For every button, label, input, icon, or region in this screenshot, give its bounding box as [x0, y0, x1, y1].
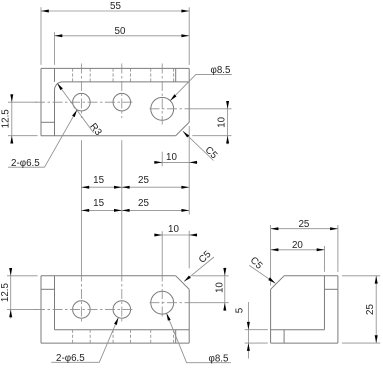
hidden line hole1 right: [89, 68, 91, 82]
hidden line hole1 left front view: [72, 330, 74, 343]
dim 25 side arrow left: [271, 227, 279, 230]
svg-text:φ8.5: φ8.5: [211, 65, 232, 76]
hole1 top view circle: [73, 93, 91, 111]
centerline horizontal small holes top view: [35, 101, 135, 103]
hidden line hole1 right front view: [89, 330, 91, 343]
dim 12.5 upper extension line top: [8, 101, 38, 103]
leader 2-phi6.5 upper arrow: [72, 110, 77, 117]
dim 25 right line: [375, 276, 377, 343]
svg-text:C5: C5: [203, 145, 220, 162]
svg-text:10: 10: [168, 224, 179, 235]
dim 5 arrow top: [247, 322, 250, 330]
side view wall face edge: [323, 276, 325, 330]
side view chamfer C5 edge: [271, 276, 285, 290]
hole3 top view circle (large): [151, 97, 174, 120]
front view outline: bottom edge: [41, 342, 189, 344]
hole2 front view circle: [113, 301, 131, 319]
centerline vertical hole3 front view: [161, 272, 163, 319]
dim 10 upper-right arrow top: [226, 101, 229, 109]
dim 10 lower-right extension top: [192, 275, 228, 277]
side view outline: right edge: [337, 276, 339, 343]
dim 25 right arrow top: [375, 276, 378, 284]
dim 12.5 upper line: [11, 94, 13, 144]
hidden line hole2 right front view: [130, 330, 132, 343]
dim 10 lower-right line: [224, 268, 226, 312]
hidden line hole3 left: [150, 68, 152, 82]
svg-text:5: 5: [235, 307, 246, 313]
hidden line hole2 right: [130, 68, 132, 82]
dim 10 upper-right arrow bottom: [226, 136, 229, 144]
extension line hole2 between views: [121, 140, 123, 271]
dim 25 side extension right: [337, 225, 339, 272]
dim 50 arrow left: [55, 34, 63, 37]
leader phi8.5 lower line: [167, 313, 231, 362]
svg-text:25: 25: [138, 175, 149, 186]
dim 20 arrow left: [271, 248, 279, 251]
leader 2-phi6.5 lower line: [51, 318, 118, 363]
dim row2 line: [81, 209, 189, 211]
top view outline: front edge: [41, 135, 176, 137]
top view chamfer C5 corner edge: [176, 122, 190, 136]
hidden line hole3 right: [173, 68, 175, 82]
front view outline: left edge: [40, 276, 42, 343]
leader phi8.5 lower arrow: [167, 313, 171, 320]
svg-text:25: 25: [365, 304, 376, 315]
dim 50 arrow right: [181, 34, 189, 37]
hidden line hole3 left front view: [150, 330, 152, 343]
svg-text:10: 10: [216, 116, 227, 127]
dim 20 arrow right: [317, 248, 325, 251]
dim 10 lower-right arrow top: [223, 268, 226, 276]
dim 12.5 upper extension line bottom: [8, 135, 38, 137]
dim 10 lower-right extension bottom: [192, 302, 228, 304]
leader phi8.5 upper arrow: [170, 94, 176, 100]
svg-text:C5: C5: [197, 249, 214, 266]
dim 50 line: [55, 35, 190, 37]
top view left block right-face edge (band segment): [54, 68, 56, 82]
dim 25 right extension bottom: [342, 342, 380, 344]
dim 55 arrow right: [181, 10, 189, 13]
dim 10 lower-horiz extension right: [188, 231, 190, 268]
leader 2-phi6.5 upper line: [8, 110, 77, 167]
svg-text:25: 25: [138, 198, 149, 209]
leader C5 lower line: [184, 257, 214, 281]
dim 5 extension top: [245, 329, 268, 331]
hole1 front view circle: [73, 301, 91, 319]
svg-text:2-φ6.5: 2-φ6.5: [11, 158, 40, 169]
dim 25 right arrow bottom: [375, 335, 378, 343]
leader R3 arrow: [57, 83, 63, 90]
side view chamfer edge line top-right cell: [324, 288, 337, 290]
dim 5 line: [247, 302, 249, 359]
side view outline: top edge: [284, 275, 338, 277]
top view chamfer edge line in band: [175, 68, 177, 82]
hidden line hole1 left: [72, 68, 74, 82]
dim 12.5 lower line: [10, 268, 12, 319]
dim 10 upper-right extension bottom: [192, 135, 231, 137]
top view left block front edge: [41, 121, 55, 123]
dim row1 arrow right: [181, 186, 189, 189]
leader phi8.5 upper line: [170, 74, 232, 100]
dim row1 arrow left: [81, 186, 89, 189]
svg-text:C5: C5: [248, 255, 265, 272]
centerline horizontal small holes front view: [35, 308, 135, 310]
fillet R3 arc: [55, 82, 63, 90]
dim 50 extension line left: [54, 32, 56, 65]
leader R3 line: [57, 83, 93, 133]
dim 10 upper-right extension top: [192, 108, 231, 110]
centerline horizontal big hole front view: [150, 302, 193, 304]
dim 10 lower-horiz arrow right: [189, 234, 197, 237]
hole3 front view circle (large): [151, 291, 174, 314]
side view outline: bottom edge: [271, 342, 338, 344]
extension line right edge below upper view: [188, 126, 190, 215]
dim 10 upper-horiz arrow right: [189, 161, 197, 164]
svg-text:15: 15: [93, 175, 104, 186]
svg-text:12.5: 12.5: [0, 109, 11, 129]
dim 25 right extension top: [342, 275, 380, 277]
hidden line hole2 left: [112, 68, 114, 82]
top view outline: left edge: [40, 68, 42, 135]
dim 25 side extension left: [270, 225, 272, 286]
dim 12.5 upper arrow bottom: [10, 136, 13, 144]
dim 12.5 lower arrow bottom: [9, 309, 12, 317]
dim row2 arrow left: [81, 209, 89, 212]
dim 10 upper-horiz extension left: [161, 152, 163, 167]
dim 10 upper-right line: [227, 101, 229, 144]
svg-text:φ8.5: φ8.5: [209, 353, 230, 364]
side view outline: left edge: [270, 289, 272, 343]
dim 12.5 lower arrow top: [9, 268, 12, 276]
front view left block top edge: [41, 288, 55, 290]
dim row1 line: [81, 186, 189, 188]
dim 10 lower-horiz extension left: [161, 231, 163, 271]
dim 10 lower-right arrow bottom: [223, 303, 226, 311]
front view outline: right edge: [188, 289, 190, 343]
dim 10 lower-horiz line: [154, 234, 197, 236]
front view outline: top edge: [41, 275, 176, 277]
top view outline: right edge: [188, 68, 190, 122]
svg-text:50: 50: [115, 26, 126, 37]
dim row1 arrows middle: [114, 186, 122, 189]
centerline vertical hole2 front view: [121, 272, 123, 322]
dim 55 arrow left: [41, 10, 49, 13]
dim row2 arrows middle: [114, 209, 122, 212]
dim 12.5 upper arrow top: [10, 94, 13, 102]
dim 55 extension line left: [40, 7, 42, 65]
dim 12.5 lower extension bottom: [7, 308, 38, 310]
dim 55 line: [41, 10, 189, 12]
dim 10 lower-horiz arrow left: [154, 234, 162, 237]
dim 20 line: [271, 249, 325, 251]
dim 55/50 extension line right: [188, 7, 190, 65]
svg-text:25: 25: [298, 219, 309, 230]
dim 5 extension bottom: [245, 342, 268, 344]
svg-text:20: 20: [292, 240, 303, 251]
centerline horizontal big hole top view: [150, 108, 193, 110]
centerline vertical hole1 top view: [80, 64, 82, 119]
svg-text:10: 10: [215, 282, 226, 293]
dim 25 side arrow right: [330, 227, 338, 230]
leader C5 lower arrow: [184, 276, 191, 282]
leader C5 side line: [249, 265, 275, 283]
centerline vertical hole1 front view: [80, 272, 82, 322]
front view chamfer C5 corner edge: [176, 276, 190, 290]
svg-text:10: 10: [166, 152, 177, 163]
hidden line hole2 left front view: [112, 330, 114, 343]
centerline vertical hole2 top view: [121, 64, 123, 119]
leader 2-phi6.5 lower arrow: [114, 318, 118, 325]
hidden line hole3 right front view: [173, 330, 175, 343]
hole2 top view circle: [113, 93, 131, 111]
svg-text:2-φ6.5: 2-φ6.5: [56, 353, 85, 364]
dim 12.5 lower extension top: [7, 275, 38, 277]
front view base top edge: [55, 329, 190, 331]
centerline vertical hole3 top view: [161, 64, 163, 125]
dim 25 side line: [271, 228, 338, 230]
leader C5 side arrow: [268, 277, 275, 283]
top view wall face edge: [63, 81, 190, 83]
svg-text:12.5: 12.5: [0, 283, 11, 303]
top view left block right-face edge (lower segment): [54, 90, 56, 136]
top view outline: back edge: [41, 67, 189, 69]
extension line hole1 between views: [80, 140, 82, 271]
dim 10 upper-horiz arrow left: [154, 161, 162, 164]
dim 10 upper-horiz line: [154, 161, 197, 163]
leader C5 upper arrow: [183, 131, 189, 137]
side view base top edge: [271, 329, 325, 331]
dim 5 arrow bottom: [247, 343, 250, 351]
dim 20 extension right: [323, 246, 325, 272]
side view bottom-left step edge: [283, 330, 285, 343]
svg-text:15: 15: [93, 198, 104, 209]
dim row2 arrow right: [181, 209, 189, 212]
front view left block right-face edge: [54, 276, 56, 330]
leader C5 upper line: [183, 131, 214, 160]
svg-text:55: 55: [110, 1, 121, 12]
front view chamfer edge line in base band: [175, 330, 177, 343]
